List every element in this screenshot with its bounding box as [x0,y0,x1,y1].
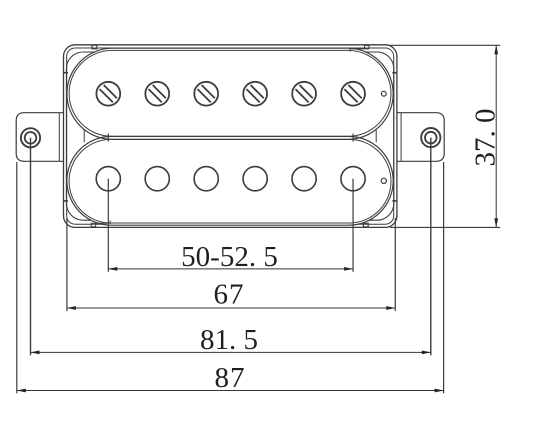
screw pole S1 [96,82,120,106]
screw pole S6 [341,82,365,106]
frame bridge tick left upper [63,72,68,74]
svg-text:50-52. 5: 50-52. 5 [181,241,278,273]
extension line pole6 down [352,179,354,272]
extension line ear-hole-right down [430,138,432,356]
screw pole S2 [145,82,169,106]
slug pole P6 [341,167,365,191]
screw pole S5 [292,82,316,106]
slug pole P1 [96,167,120,191]
spacer edge right waist [375,130,377,142]
dimension line 50-52.5 [108,268,353,270]
dimension line 87 [17,390,444,392]
svg-text:81. 5: 81. 5 [200,324,258,356]
tab notch bottom-left step [91,221,110,227]
screw pole S4 [243,82,267,106]
tab notch bottom-right [363,223,368,227]
frame bridge tick right upper [392,72,397,74]
dimension line 81.5 [31,351,431,353]
extension line pole1 down [107,179,109,272]
bottom bobbin fill [67,136,393,225]
extension line ear-right-edge down [443,162,445,393]
bottom bobbin outer outline [67,136,393,225]
ear screw hole left inner [25,132,37,144]
slug pole P4 [243,167,267,191]
frame bridge tick right lower [392,200,397,202]
bottom bobbin inner outline [69,139,391,223]
screw pole S3 [194,82,218,106]
extension line ear-hole-left down [30,138,32,355]
dimension line 67 [67,307,395,309]
screw shaft mark right waist [352,134,354,142]
slug pole P5 [292,167,316,191]
tab notch top-left [92,45,97,49]
ear screw hole right inner [425,132,437,144]
top bobbin outer outline [67,48,393,139]
ear screw hole left outer [21,128,40,147]
extension line frame-left down [66,218,68,311]
extension line frame-right down [394,218,396,311]
slug pole P3 [194,167,218,191]
frame inner wall [66,52,393,220]
dimension line 37.0 vertical [495,45,497,227]
extension line ear-left-edge down [16,162,18,393]
wire hole dot bottom [381,178,386,183]
ear fold line left [58,113,60,162]
extension line frame-top right [390,44,500,46]
extension line frame-bottom right [390,226,500,228]
frame inner lip contour [67,48,394,224]
slug pole P2 [145,167,169,191]
svg-text:67: 67 [214,279,245,311]
ear screw hole right outer [421,128,440,147]
screw shaft mark left waist [107,134,109,142]
svg-text:87: 87 [215,362,246,394]
mounting ear right [396,113,444,162]
top bobbin inner outline [69,50,391,136]
mounting ear left [16,113,64,162]
wire hole dot top [381,91,386,96]
spacer edge left waist [83,130,85,142]
top bobbin fill [67,48,393,139]
svg-text:37. 0: 37. 0 [470,109,502,167]
ear fold line right [400,113,402,162]
tab notch top-right [350,46,369,52]
pickup baseplate frame [64,45,397,228]
frame bridge tick left lower [63,200,68,202]
